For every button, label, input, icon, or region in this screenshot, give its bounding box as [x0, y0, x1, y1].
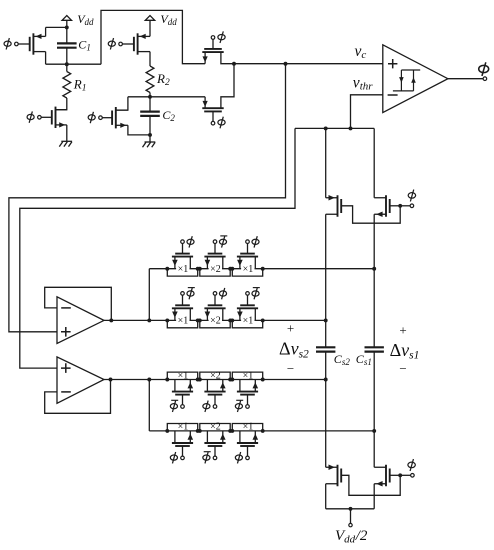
svg-text:×2: ×2 [210, 264, 221, 275]
wire gate to port (top pair) [400, 205, 410, 207]
wire vthr bus [295, 127, 374, 129]
ground (block 2) [143, 142, 156, 147]
svg-text:+: + [287, 321, 294, 336]
svg-text:×2: ×2 [210, 370, 221, 381]
wire Q3 gate routing [341, 475, 400, 495]
node Vdd1 junction [65, 25, 69, 29]
capacitor Cs1 [365, 347, 384, 351]
svg-text:Vdd: Vdd [160, 12, 177, 27]
wire M4 drain up to node C [116, 97, 128, 110]
port phi gate M1 [4, 38, 30, 49]
label Vdd/2 [335, 528, 368, 545]
wire U1 output [448, 78, 483, 80]
transistor switch row1 unit 1 (×1) [165, 236, 199, 276]
label vc [355, 43, 367, 61]
port phi gate M6 [211, 111, 225, 128]
transistor switch row2 unit 2 (×2) [198, 288, 232, 328]
transistor switch row3 unit 3 (×1) [230, 370, 264, 412]
node Q3/Q4 gate junction [398, 473, 402, 477]
label phi (bottom pair) [408, 459, 415, 471]
svg-text:×1: ×1 [243, 264, 254, 275]
label − (Δvs1) [399, 361, 406, 376]
wire Q2 drain down to Cs1 top [373, 214, 375, 347]
svg-text:C1: C1 [78, 38, 91, 53]
port phi gate M3 [108, 38, 134, 49]
label + (Δvs2) [287, 321, 294, 336]
node Q1/Q2 gate junction [398, 204, 402, 208]
svg-text:Δvs1: Δvs1 [390, 340, 420, 362]
wire Q3 source down [325, 484, 327, 509]
capacitor Cs2 [316, 347, 335, 351]
label − (Δvs2) [287, 361, 294, 376]
svg-text:×1: ×1 [178, 264, 189, 275]
wire U3 feedback [45, 380, 111, 414]
svg-text:R2: R2 [156, 71, 170, 88]
svg-text:×1: ×1 [178, 422, 189, 433]
power Vdd symbol (block 1) [62, 16, 71, 28]
wire C2 bottom to ground [149, 135, 151, 142]
svg-text:+: + [399, 323, 406, 338]
wire node B detour over block 2 [101, 10, 205, 64]
label Cs2 [334, 352, 351, 367]
transistor Q2 (top pass right) [374, 195, 390, 217]
transistor Q1 (top pass left) [326, 195, 342, 217]
wire vc line [234, 63, 383, 65]
svg-text:−: − [287, 361, 294, 376]
wire R1 to M2 drain [56, 98, 67, 110]
transistor switch row4 unit 3 (×1) [230, 422, 264, 464]
transistor M6 (bottom mux switch) [202, 108, 223, 111]
svg-text:×2: ×2 [210, 316, 221, 327]
svg-text:Vdd/2: Vdd/2 [335, 528, 368, 545]
port phi output [483, 77, 487, 81]
svg-text:vc: vc [355, 43, 367, 61]
wire M5 right terminal [221, 52, 234, 64]
comparator U1 [383, 45, 448, 113]
label R2 [156, 71, 170, 88]
wire Q1 gate routing [341, 206, 400, 223]
wire vthr to U1 [351, 95, 383, 129]
transistor Q4 (bottom pass right) [374, 465, 390, 487]
transistor switch row4 unit 2 (×2) [198, 422, 232, 464]
label vthr [353, 74, 373, 92]
node Cs2 top junction [324, 318, 328, 322]
transistor M2 (NMOS, block 1) [52, 107, 67, 128]
wire U3 output (row3 bus) [104, 379, 326, 381]
label + (Δvs1) [399, 323, 406, 338]
wire M3 drain to R2 [149, 52, 151, 66]
wire vc sense to U2 [9, 64, 286, 332]
wire Cs2 top segment [325, 320, 327, 347]
transistor M3 (PMOS, block 2) [134, 33, 150, 54]
svg-text:×1: ×1 [243, 316, 254, 327]
svg-text:Δvs2: Δvs2 [279, 339, 309, 361]
svg-text:vthr: vthr [353, 74, 373, 92]
label phi output [479, 62, 489, 76]
node B wire (C1 bottom node) [46, 62, 101, 66]
label Vdd (block 2) [160, 12, 177, 27]
svg-text:Cs2: Cs2 [334, 352, 351, 367]
power Vdd symbol (block 2) [145, 16, 154, 37]
transistor switch row2 unit 1 (×1) [165, 288, 199, 328]
svg-text:−: − [399, 361, 406, 376]
wire row1 riser and bus [149, 269, 374, 321]
node mux output junction [232, 62, 236, 66]
transistor M5 (top mux switch) [202, 49, 223, 52]
transistor Q3 (bottom pass left) [326, 465, 342, 487]
label phi (top pair) [408, 190, 415, 202]
node row4 right junction [372, 429, 376, 433]
port phi gate M2 [27, 111, 52, 122]
capacitor C2 [140, 97, 160, 135]
label C1 [78, 38, 91, 53]
wire Q1 drain down to Cs2 top [325, 214, 327, 320]
svg-text:×2: ×2 [210, 422, 221, 433]
ground (block 1) [59, 141, 72, 146]
wire U2 output (row2 bus) [104, 319, 326, 321]
wire Cs1 bottom segment [373, 352, 375, 468]
wire Q2 gate lead [390, 205, 400, 207]
transistor M4 (NMOS, block 2) [112, 107, 128, 128]
svg-text:×1: ×1 [178, 316, 189, 327]
svg-text:Vdd: Vdd [77, 12, 94, 27]
node U2 output junctions [109, 318, 151, 322]
node C2 bottom junction [148, 133, 152, 137]
wire M5 left terminal [203, 52, 208, 64]
node U3 output junctions [109, 378, 152, 382]
label C2 [162, 108, 175, 123]
transistor switch row1 unit 3 (×1) [230, 236, 264, 276]
transistor switch row1 unit 2 (×2) [198, 236, 232, 276]
transistor switch row4 unit 1 (×1) [165, 422, 199, 464]
wire Cs2 column upper [325, 128, 327, 197]
transistor M1 (PMOS, block 1) [30, 27, 46, 54]
wire M6 left terminal [203, 97, 208, 108]
wire Vdd/2 bus [326, 508, 375, 510]
wire Cs1 column upper [373, 128, 375, 197]
hysteresis icon U1 [393, 70, 420, 91]
svg-text:C2: C2 [162, 108, 175, 123]
wire M4 source to C2 bottom [128, 125, 150, 135]
port Vdd/2 [349, 523, 352, 526]
wire Vdd/2 tap lead [350, 509, 352, 524]
wire M2 source to ground [66, 125, 68, 141]
label Vdd (block 1) [77, 12, 94, 27]
resistor R1 [63, 64, 71, 98]
transistor switch row3 unit 2 (×2) [198, 370, 232, 412]
port phi gate M5 [211, 31, 225, 49]
label Cs1 [356, 352, 372, 367]
svg-text:Cs1: Cs1 [356, 352, 372, 367]
svg-text:×1: ×1 [243, 422, 254, 433]
node C wire (R2/C2 node) [128, 95, 205, 99]
resistor R2 [146, 66, 154, 97]
svg-text:×1: ×1 [243, 370, 254, 381]
op-amp U3 [57, 357, 104, 403]
wire Q4 source down [373, 484, 375, 509]
wire Vdd1 to M1 source [46, 26, 67, 28]
port phi gate M4 [88, 112, 112, 123]
wire vthr sense to U3 [20, 128, 295, 368]
wire Q4 gate lead [390, 474, 400, 476]
transistor switch row3 unit 1 (×1) [165, 370, 199, 412]
op-amp U2 [57, 297, 104, 344]
wire M6 right terminal [221, 64, 234, 108]
node Vdd/2 tap [349, 507, 353, 511]
node Cs2 bottom junction [324, 378, 328, 382]
capacitor C1 [57, 27, 77, 64]
wire M1 drain down to node B [45, 52, 47, 65]
svg-text:R1: R1 [73, 77, 87, 94]
wire row4 riser and bus [149, 380, 374, 431]
wire U2 feedback [45, 287, 112, 320]
wire Cs2 bottom segment [325, 352, 327, 468]
label Δvs2 [279, 339, 309, 361]
label R1 [73, 77, 87, 94]
svg-text:×1: ×1 [178, 370, 189, 381]
port phi (top pair) [410, 204, 414, 208]
label Δvs1 [390, 340, 420, 362]
node vthr bus taps [324, 126, 353, 130]
port phi (bottom pair) [411, 474, 415, 478]
transistor switch row2 unit 3 (×1) [230, 288, 264, 328]
node row1 right junction [372, 267, 376, 271]
node vc junction [284, 62, 288, 66]
wire gate to port (bottom pair) [400, 474, 410, 476]
